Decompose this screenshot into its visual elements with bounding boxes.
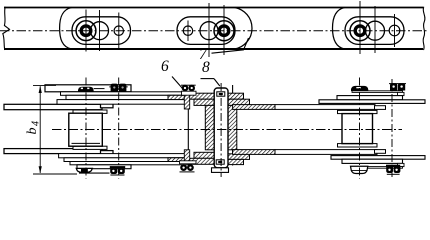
bolt L2 nuts (silhouette) (111, 84, 119, 92)
bolt R1 dome head (silhouette) (351, 86, 368, 91)
top plate L2 hatched (194, 99, 214, 105)
bottom plate L1 hatched (189, 158, 214, 164)
right roller bottom flange (338, 144, 378, 147)
dimension line (39, 86, 41, 173)
lap arc right of plate 2 (235, 8, 252, 50)
bolt axis left1 (85, 78, 87, 179)
arrow down (39, 166, 42, 173)
right roller top flange (338, 110, 378, 113)
inner plate edge right (232, 85, 234, 166)
assembly bolt top-left nuts (silhouette) (182, 85, 189, 92)
plate2 small hole (183, 26, 192, 35)
arrow up (39, 86, 42, 93)
right rail top plain part (275, 105, 375, 110)
break line left (3, 7, 10, 50)
bar centerline (0, 30, 428, 32)
plate1 middle hole (91, 22, 109, 40)
right link plate2 top (319, 100, 425, 104)
centerline pin2 (223, 5, 225, 55)
extension line bottom (33, 173, 77, 175)
centerline hole1s (118, 13, 120, 50)
break line right (423, 7, 425, 50)
right link plate1 bottom (342, 159, 403, 163)
centerline hole2s (187, 21, 189, 42)
plate3 small hole (389, 25, 400, 36)
right roller body (342, 114, 373, 144)
bottom plate R2 hatched (228, 154, 250, 160)
right link washer top (398, 92, 405, 95)
pin washer bottom (212, 168, 229, 173)
bottom plate R1 hatched (228, 159, 244, 164)
label 6 (161, 58, 169, 76)
pin slot bottom (216, 160, 224, 164)
top plate R2 hatched (228, 99, 250, 105)
label 8 (202, 59, 210, 77)
plate2 middle hole (200, 22, 218, 40)
right rail bottom end step (375, 150, 386, 154)
plate1 bolt head (double circle) (76, 21, 96, 41)
centerline hole1m (99, 10, 101, 51)
assembly bolt bottom-left nuts (silhouette) (180, 164, 187, 171)
chain axis centerline (52, 129, 402, 131)
link plate 1 (72, 17, 131, 45)
bolt L1 dome head bottom (76, 168, 92, 172)
left rail bottom end cap (101, 151, 114, 155)
plate3 middle hole (366, 21, 385, 40)
left link band C top (66, 95, 188, 99)
top plate R1 hatched (228, 93, 244, 99)
leader 8 (214, 79, 220, 86)
left link bar D bottom (59, 154, 189, 158)
leader 6 (172, 77, 183, 90)
bolt L1 bottom nut (82, 169, 88, 172)
right link plate1 top (337, 96, 403, 100)
assembly bolt bottom-left shaft (184, 150, 189, 161)
right link plate2 bottom (331, 156, 425, 160)
left roller inner line (72, 142, 101, 144)
right rail bottom plain part (275, 150, 377, 155)
bolt L1 dome head (silhouette) (78, 87, 94, 92)
pin axis (220, 83, 222, 177)
leader 7 (212, 38, 249, 53)
bolt axis right2 (391, 79, 393, 179)
centerline bolt1 (85, 10, 87, 52)
pin (214, 88, 228, 168)
bolt R2 nuts bottom (silhouette) (386, 167, 393, 173)
extension line top (33, 84, 56, 86)
top plate L1 hatched (189, 93, 214, 99)
assembly bolt top-left washer (182, 91, 197, 95)
bushing right hatched (228, 105, 237, 149)
right rail top end step (375, 106, 386, 110)
bolt R2 bottom washer bar (386, 165, 400, 167)
bolt axis right1 (359, 78, 361, 179)
left rail bottom (4, 149, 102, 154)
bolt L2 nuts bottom (silhouette) (110, 168, 117, 174)
link plate 2 (177, 17, 235, 45)
right rail top hatched part (233, 105, 275, 110)
bolt L1 bottom washer line (79, 172, 110, 174)
left roller top flange (73, 110, 107, 113)
bolt R1 dome head bottom (351, 166, 368, 173)
inner plate edge left (187, 92, 189, 166)
lap arc left of plate 3 (333, 8, 345, 50)
left rail top (previous link bar) (4, 104, 102, 109)
lap arc left of plate 1 (60, 8, 72, 50)
left link plate A top (45, 85, 131, 92)
centerline hole3s (394, 14, 396, 47)
bushing left hatched (205, 105, 214, 149)
left roller bottom flange (73, 146, 107, 149)
plate3 bolt head (double circle) (350, 21, 370, 41)
recess line right of dome (94, 88, 105, 90)
centerline hole2m (208, 3, 210, 57)
leader 8 underline (201, 78, 215, 80)
left link plate A bottom (77, 165, 131, 169)
plate1 small hole (114, 26, 123, 35)
chain bar bottom edge (4, 48, 423, 50)
assembly bolt bottom-left washer (180, 161, 197, 164)
plate2 pin head (double circle) (214, 21, 234, 41)
bottom plate L2 hatched (194, 152, 214, 158)
chain bar top edge (4, 7, 423, 9)
link plate 3 (345, 17, 404, 45)
right link strip bottom (352, 167, 403, 169)
centerline bolt3 (359, 1, 361, 54)
centerline hole3m (374, 6, 376, 53)
assembly bolt top-left shaft (184, 93, 189, 109)
pin slot top (217, 92, 225, 96)
left link bar D top (57, 100, 188, 105)
left link plate B bottom (70, 162, 188, 165)
bolt R2 nuts (silhouette) (390, 83, 397, 90)
left link band C bottom (64, 158, 188, 162)
left link band C bottom hatched end (168, 158, 188, 162)
bolt L2 bottom washer bar (110, 166, 125, 168)
left link plate B top (61, 92, 189, 96)
left rail top end cap (101, 104, 114, 108)
right link strip top (352, 91, 403, 93)
label 7 (199, 46, 207, 64)
right link washer bottom (398, 163, 405, 166)
left roller body (69, 113, 103, 146)
bolt axis left2 (118, 78, 120, 179)
right rail bottom hatched part (233, 150, 275, 155)
left link band C top hatched end (168, 95, 188, 99)
